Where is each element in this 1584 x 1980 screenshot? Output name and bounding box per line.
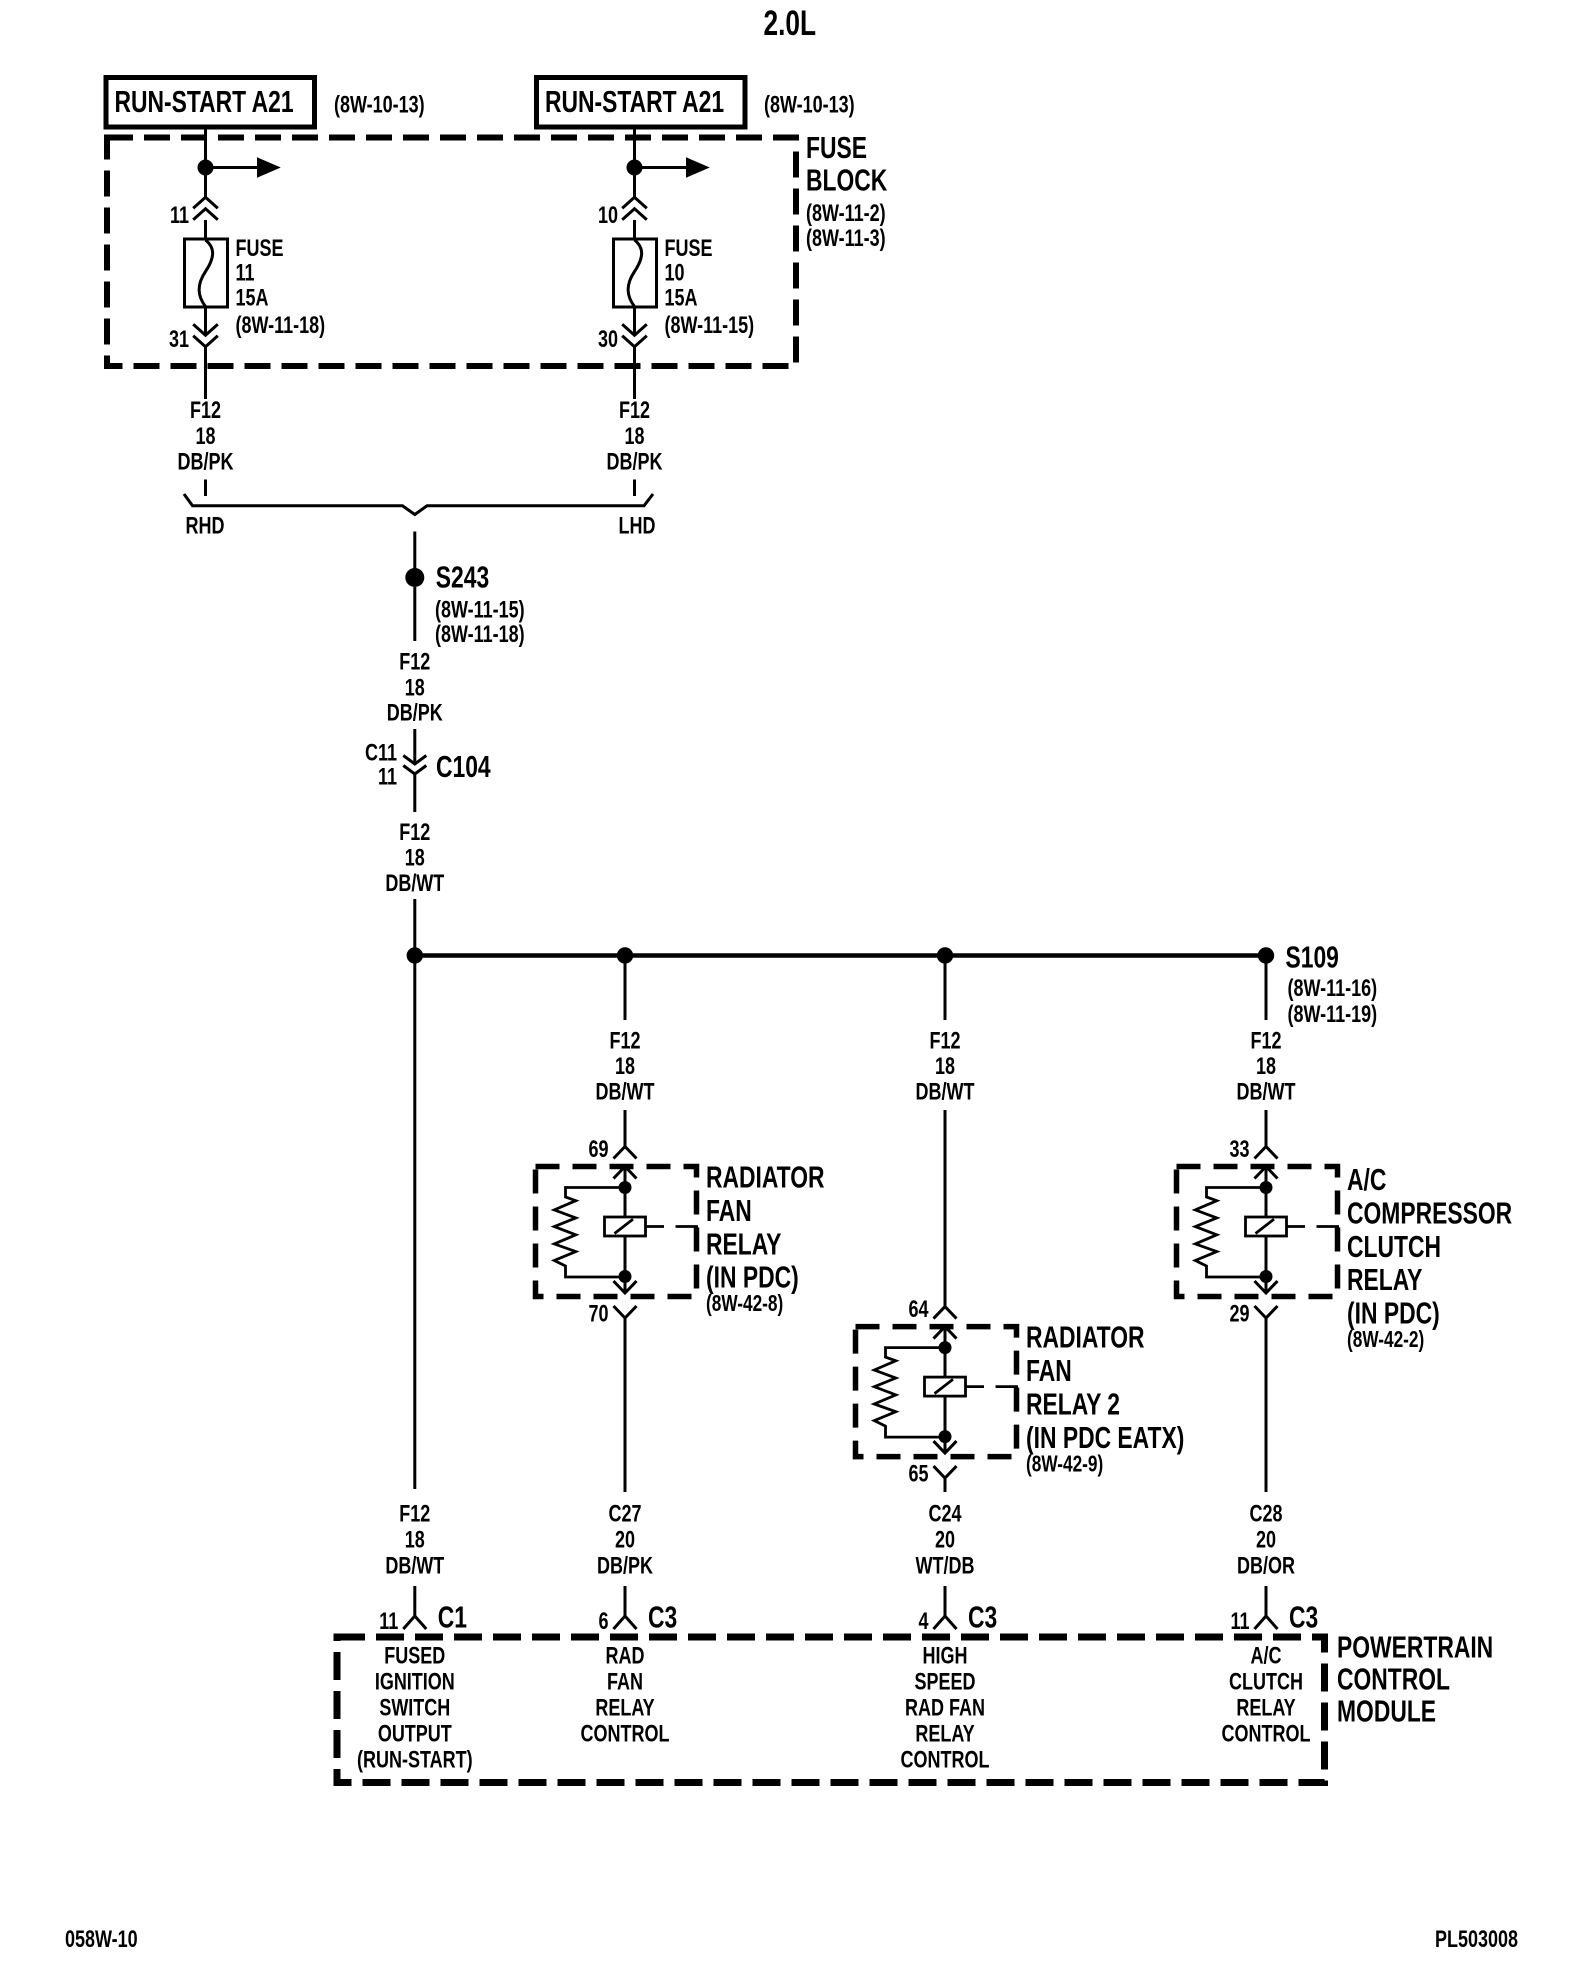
svg-text:RELAY 2: RELAY 2 (1026, 1387, 1120, 1421)
svg-text:FUSE: FUSE (806, 131, 867, 165)
relay junction dot top (A/C compressor clutch relay K-AC) (1260, 1181, 1273, 1194)
wire coil to bottom dot (radiator fan relay K-RF1) (624, 1236, 627, 1277)
svg-text:11: 11 (378, 764, 397, 790)
wire fuse block out (633, 347, 636, 399)
wire into relay (x=625) (624, 1110, 627, 1147)
svg-text:C3: C3 (968, 1600, 997, 1634)
wire junction to pin 10 (633, 168, 636, 198)
relay terminal chevron bottom (radiator fan relay 2 K-RF2) (934, 1437, 957, 1454)
wire label C27 20 DB/PK (x=625) (597, 1501, 654, 1579)
wire label F12 18 DB/PK (x=634.5) (607, 398, 664, 476)
svg-text:6: 6 (598, 1609, 608, 1635)
reference label (8W-10-13) left (334, 92, 425, 118)
relay coil box (A/C compressor clutch relay K-AC) (1246, 1188, 1340, 1237)
connector C104 pin C11/11 (365, 740, 491, 790)
relay terminal chevron bottom (A/C compressor clutch relay K-AC) (1255, 1277, 1278, 1294)
node label RHD (186, 513, 225, 539)
wire bus down (x=1266) (1265, 956, 1268, 1021)
svg-text:(8W-11-18): (8W-11-18) (435, 622, 525, 648)
relay coil resistor (A/C compressor clutch relay K-AC) (1195, 1188, 1266, 1278)
svg-text:18: 18 (405, 675, 425, 701)
title 2.0L (764, 3, 817, 43)
wire bus down (x=625) (624, 956, 627, 1021)
svg-text:FUSE: FUSE (665, 236, 713, 262)
wire relay to PCM (x=625) (624, 1318, 627, 1492)
svg-text:DB/PK: DB/PK (387, 700, 444, 726)
svg-text:10: 10 (665, 260, 685, 286)
svg-text:WT/DB: WT/DB (916, 1553, 975, 1579)
relay terminal chevron bottom (radiator fan relay K-RF1) (614, 1277, 637, 1294)
fuse block dashed box (107, 138, 796, 367)
svg-text:65: 65 (908, 1461, 928, 1487)
node label LHD (619, 513, 656, 539)
PCM pin function label (x=945) (901, 1643, 990, 1773)
svg-text:(8W-10-13): (8W-10-13) (334, 92, 425, 118)
wire into bus (413, 899, 416, 950)
fuse F10 15A (614, 236, 755, 339)
svg-text:(8W-11-15): (8W-11-15) (435, 597, 525, 623)
svg-text:F12: F12 (190, 398, 221, 424)
footer sheet number 058W-10 (65, 1927, 138, 1953)
wire bus down (x=945) (944, 956, 947, 1021)
svg-text:18: 18 (405, 845, 425, 871)
svg-text:DB/WT: DB/WT (916, 1079, 975, 1105)
svg-text:15A: 15A (236, 285, 269, 311)
svg-text:(8W-11-16): (8W-11-16) (1288, 976, 1378, 1002)
bus wire (splice run to S109) (415, 953, 1266, 958)
svg-text:DB/OR: DB/OR (1237, 1553, 1295, 1579)
wire to connector C104 (413, 729, 416, 764)
relay terminal chevron top (radiator fan relay K-RF1) (614, 1167, 637, 1188)
relay coil resistor (radiator fan relay K-RF1) (554, 1188, 625, 1278)
svg-text:DB/PK: DB/PK (178, 449, 235, 475)
svg-text:C28: C28 (1249, 1501, 1282, 1527)
svg-text:F12: F12 (399, 1501, 430, 1527)
splice label S109 (1286, 940, 1378, 1027)
relay junction dot top (radiator fan relay K-RF1) (619, 1181, 632, 1194)
svg-text:DB/WT: DB/WT (596, 1079, 655, 1105)
PCM connector pin 4 C3 (x=945) (918, 1586, 997, 1635)
svg-text:(IN PDC): (IN PDC) (706, 1261, 799, 1295)
svg-text:4: 4 (918, 1609, 928, 1635)
svg-text:11: 11 (379, 1609, 398, 1635)
svg-text:(8W-42-2): (8W-42-2) (1347, 1328, 1424, 1353)
svg-text:SPEED: SPEED (914, 1669, 975, 1695)
svg-text:RADIATOR: RADIATOR (1026, 1320, 1145, 1354)
relay junction dot top (radiator fan relay 2 K-RF2) (939, 1341, 952, 1354)
junction dot (x=205.5) (198, 160, 214, 176)
svg-text:(8W-11-19): (8W-11-19) (1288, 1002, 1378, 1028)
svg-text:OUTPUT: OUTPUT (378, 1721, 452, 1747)
wire bus to PCM (column 1) (413, 956, 416, 1490)
svg-text:11: 11 (170, 203, 189, 229)
wire junction to pin 11 (204, 168, 207, 198)
footer drawing number PL503008 (1435, 1927, 1518, 1953)
connector pin 70 (radiator fan relay K-RF1) (588, 1301, 636, 1327)
svg-text:CLUTCH: CLUTCH (1347, 1230, 1441, 1264)
PCM connector pin 6 C3 (x=625) (598, 1586, 677, 1635)
svg-text:BLOCK: BLOCK (806, 163, 888, 197)
svg-text:RELAY: RELAY (706, 1227, 781, 1261)
svg-text:RELAY: RELAY (1347, 1263, 1422, 1297)
svg-text:C11: C11 (365, 740, 397, 766)
svg-text:RADIATOR: RADIATOR (706, 1160, 825, 1194)
svg-text:F12: F12 (1250, 1028, 1281, 1054)
PCM pin function label (x=1266) (1222, 1643, 1311, 1747)
svg-text:F12: F12 (399, 820, 430, 846)
svg-text:RAD FAN: RAD FAN (905, 1695, 985, 1721)
svg-text:18: 18 (1256, 1054, 1276, 1080)
wire label F12 18 DB/PK (below S243) (387, 649, 444, 726)
relay dashed box A/C compressor clutch relay K-AC (1177, 1167, 1338, 1297)
svg-text:RAD: RAD (606, 1643, 645, 1669)
svg-text:C1: C1 (438, 1600, 467, 1634)
svg-text:CONTROL: CONTROL (1222, 1721, 1311, 1747)
reference label (8W-10-13) right (764, 92, 855, 118)
svg-text:(8W-42-9): (8W-42-9) (1026, 1452, 1103, 1477)
svg-text:(RUN-START): (RUN-START) (357, 1747, 473, 1773)
svg-text:FAN: FAN (1026, 1354, 1072, 1388)
svg-text:CONTROL: CONTROL (901, 1747, 990, 1773)
svg-text:30: 30 (598, 327, 618, 353)
svg-text:20: 20 (615, 1527, 635, 1553)
wire coil to bottom dot (radiator fan relay 2 K-RF2) (944, 1396, 947, 1437)
wire label C28 20 DB/OR (x=1266) (1237, 1501, 1295, 1579)
wire merge to splice S243 (413, 532, 416, 570)
svg-text:COMPRESSOR: COMPRESSOR (1347, 1196, 1512, 1230)
wire relay to PCM (x=1266) (1265, 1318, 1268, 1492)
svg-text:LHD: LHD (619, 513, 656, 539)
svg-text:10: 10 (598, 203, 618, 229)
svg-text:15A: 15A (665, 285, 698, 311)
wire stub above merge (633, 480, 636, 497)
connector pin 65 (radiator fan relay 2 K-RF2) (908, 1461, 956, 1487)
wire stub above merge (204, 480, 207, 497)
relay name label (radiator fan relay K-RF1) (706, 1160, 825, 1317)
wire relay to PCM (x=945) (944, 1478, 947, 1492)
svg-text:F12: F12 (609, 1028, 640, 1054)
wire coil to bottom dot (A/C compressor clutch relay K-AC) (1265, 1236, 1268, 1277)
wire into relay (x=945) (944, 1110, 947, 1307)
connector pin 31 (fuse block out) (169, 307, 218, 353)
wire label F12 18 DB/WT (x=414.8) (385, 1501, 444, 1579)
svg-text:S109: S109 (1286, 940, 1339, 974)
svg-text:(8W-11-2): (8W-11-2) (806, 201, 886, 227)
svg-text:RELAY: RELAY (595, 1695, 654, 1721)
svg-text:11: 11 (1230, 1609, 1249, 1635)
bus junction dot x=625 (617, 947, 633, 963)
relay junction dot bottom (radiator fan relay K-RF1) (619, 1270, 632, 1283)
svg-text:18: 18 (405, 1527, 425, 1553)
svg-text:C3: C3 (648, 1600, 677, 1634)
svg-text:A/C: A/C (1347, 1163, 1386, 1197)
connector pin 11 (fuse block in) (170, 197, 218, 228)
PCM pin function label (x=625) (581, 1643, 670, 1747)
relay name label (A/C compressor clutch relay K-AC) (1347, 1163, 1512, 1353)
svg-text:DB/WT: DB/WT (385, 1553, 444, 1579)
svg-text:RELAY: RELAY (915, 1721, 974, 1747)
wire into relay (x=1266) (1265, 1110, 1268, 1147)
relay name label (radiator fan relay 2 K-RF2) (1026, 1320, 1184, 1477)
svg-text:69: 69 (588, 1137, 608, 1163)
PCM connector pin 11 C3 (x=1266) (1230, 1586, 1318, 1635)
relay terminal chevron top (radiator fan relay 2 K-RF2) (934, 1327, 957, 1348)
svg-text:(IN PDC): (IN PDC) (1347, 1296, 1440, 1330)
svg-text:33: 33 (1229, 1137, 1249, 1163)
svg-text:70: 70 (588, 1301, 608, 1327)
fuse block label (806, 131, 888, 252)
svg-text:(8W-42-8): (8W-42-8) (706, 1292, 783, 1317)
svg-text:29: 29 (1229, 1301, 1249, 1327)
connector pin 64 (radiator fan relay 2 K-RF2) (908, 1297, 956, 1323)
svg-text:CLUTCH: CLUTCH (1229, 1669, 1303, 1695)
svg-text:F12: F12 (929, 1028, 960, 1054)
bus junction dot x=1266 (1258, 947, 1274, 963)
wire label F12 18 DB/WT (x=1266) (1237, 1028, 1296, 1105)
svg-text:RELAY: RELAY (1236, 1695, 1295, 1721)
connector pin 30 (fuse block out) (598, 307, 647, 353)
powertrain control module dashed box (337, 1637, 1325, 1783)
svg-text:RUN-START A21: RUN-START A21 (545, 85, 724, 119)
connector pin 33 (A/C compressor clutch relay K-AC) (1229, 1137, 1277, 1163)
wire pin to fuse (633, 220, 636, 240)
svg-text:C24: C24 (928, 1501, 961, 1527)
svg-text:64: 64 (908, 1297, 928, 1323)
svg-text:31: 31 (169, 327, 189, 353)
bus junction dot x=414.8 (407, 947, 423, 963)
relay junction dot bottom (A/C compressor clutch relay K-AC) (1260, 1270, 1273, 1283)
svg-text:20: 20 (935, 1527, 955, 1553)
svg-text:SWITCH: SWITCH (379, 1695, 450, 1721)
relay terminal chevron top (A/C compressor clutch relay K-AC) (1255, 1167, 1278, 1188)
PCM pin function label (x=414.8) (357, 1643, 473, 1773)
wire S243 down (413, 587, 416, 641)
svg-text:POWERTRAIN: POWERTRAIN (1337, 1630, 1493, 1664)
wire label F12 18 DB/PK (x=205.5) (178, 398, 235, 476)
svg-text:18: 18 (195, 424, 215, 450)
svg-text:(8W-10-13): (8W-10-13) (764, 92, 855, 118)
svg-text:18: 18 (615, 1054, 635, 1080)
fuse F11 15A (185, 236, 326, 339)
svg-text:DB/WT: DB/WT (385, 871, 444, 897)
svg-text:CONTROL: CONTROL (1337, 1662, 1450, 1696)
power feed box RUN-START A21 (left) (106, 78, 315, 128)
PCM connector pin 11 C1 (x=414.8) (379, 1586, 467, 1635)
splice S243 (405, 560, 524, 647)
svg-text:F12: F12 (619, 398, 650, 424)
svg-text:11: 11 (236, 260, 255, 286)
svg-text:FAN: FAN (607, 1669, 643, 1695)
wire fuse block out (204, 347, 207, 399)
wire label F12 18 DB/WT (x=945) (916, 1028, 975, 1105)
wire label F12 18 DB/WT (above bus) (385, 820, 444, 897)
svg-text:(8W-11-18): (8W-11-18) (236, 313, 326, 339)
svg-text:PL503008: PL503008 (1435, 1927, 1518, 1953)
svg-text:(8W-11-3): (8W-11-3) (806, 226, 886, 252)
connector pin 10 (fuse block in) (598, 197, 647, 228)
wire label C24 20 WT/DB (x=945) (916, 1501, 975, 1579)
relay coil box (radiator fan relay 2 K-RF2) (925, 1348, 1019, 1397)
svg-text:S243: S243 (436, 560, 489, 594)
wire from RUN-START box to junction (x=634.5) (633, 128, 636, 160)
junction dot (x=634.5) (627, 160, 643, 176)
svg-text:DB/PK: DB/PK (607, 449, 664, 475)
relay coil box (radiator fan relay K-RF1) (605, 1188, 699, 1237)
svg-text:(8W-11-15): (8W-11-15) (665, 313, 755, 339)
svg-text:CONTROL: CONTROL (581, 1721, 670, 1747)
svg-text:2.0L: 2.0L (764, 3, 817, 43)
option merge bracket (RHD/LHD) (184, 494, 653, 515)
relay coil resistor (radiator fan relay 2 K-RF2) (874, 1348, 945, 1438)
svg-text:MODULE: MODULE (1337, 1694, 1436, 1728)
svg-text:(IN PDC EATX): (IN PDC EATX) (1026, 1421, 1184, 1455)
svg-text:RUN-START A21: RUN-START A21 (114, 85, 293, 119)
power feed box RUN-START A21 (right) (537, 78, 746, 128)
svg-text:C3: C3 (1289, 1600, 1318, 1634)
relay junction dot bottom (radiator fan relay 2 K-RF2) (939, 1430, 952, 1443)
svg-text:18: 18 (624, 424, 644, 450)
PCM label POWERTRAIN CONTROL MODULE (1337, 1630, 1493, 1728)
svg-text:DB/WT: DB/WT (1237, 1079, 1296, 1105)
feed arrow (x=634.5) (635, 158, 709, 177)
svg-text:HIGH: HIGH (923, 1643, 968, 1669)
wire C104 down (413, 774, 416, 812)
wire pin to fuse (204, 220, 207, 240)
svg-text:C104: C104 (436, 750, 491, 784)
relay dashed box radiator fan relay 2 K-RF2 (856, 1327, 1017, 1457)
connector pin 29 (A/C compressor clutch relay K-AC) (1229, 1301, 1277, 1327)
svg-text:20: 20 (1256, 1527, 1276, 1553)
svg-text:RHD: RHD (186, 513, 225, 539)
svg-text:DB/PK: DB/PK (597, 1553, 654, 1579)
bus junction dot x=945 (937, 947, 953, 963)
svg-text:FUSED: FUSED (384, 1643, 445, 1669)
wire from RUN-START box to junction (x=205.5) (204, 128, 207, 160)
svg-text:FUSE: FUSE (236, 236, 284, 262)
svg-text:F12: F12 (399, 649, 430, 675)
svg-text:IGNITION: IGNITION (375, 1669, 455, 1695)
connector pin 69 (radiator fan relay K-RF1) (588, 1137, 636, 1163)
svg-text:A/C: A/C (1251, 1643, 1282, 1669)
svg-text:FAN: FAN (706, 1194, 752, 1228)
svg-text:C27: C27 (608, 1501, 641, 1527)
relay dashed box radiator fan relay K-RF1 (536, 1167, 697, 1297)
wire label F12 18 DB/WT (x=625) (596, 1028, 655, 1105)
svg-text:18: 18 (935, 1054, 955, 1080)
svg-text:058W-10: 058W-10 (65, 1927, 138, 1953)
feed arrow (x=205.5) (206, 158, 280, 177)
